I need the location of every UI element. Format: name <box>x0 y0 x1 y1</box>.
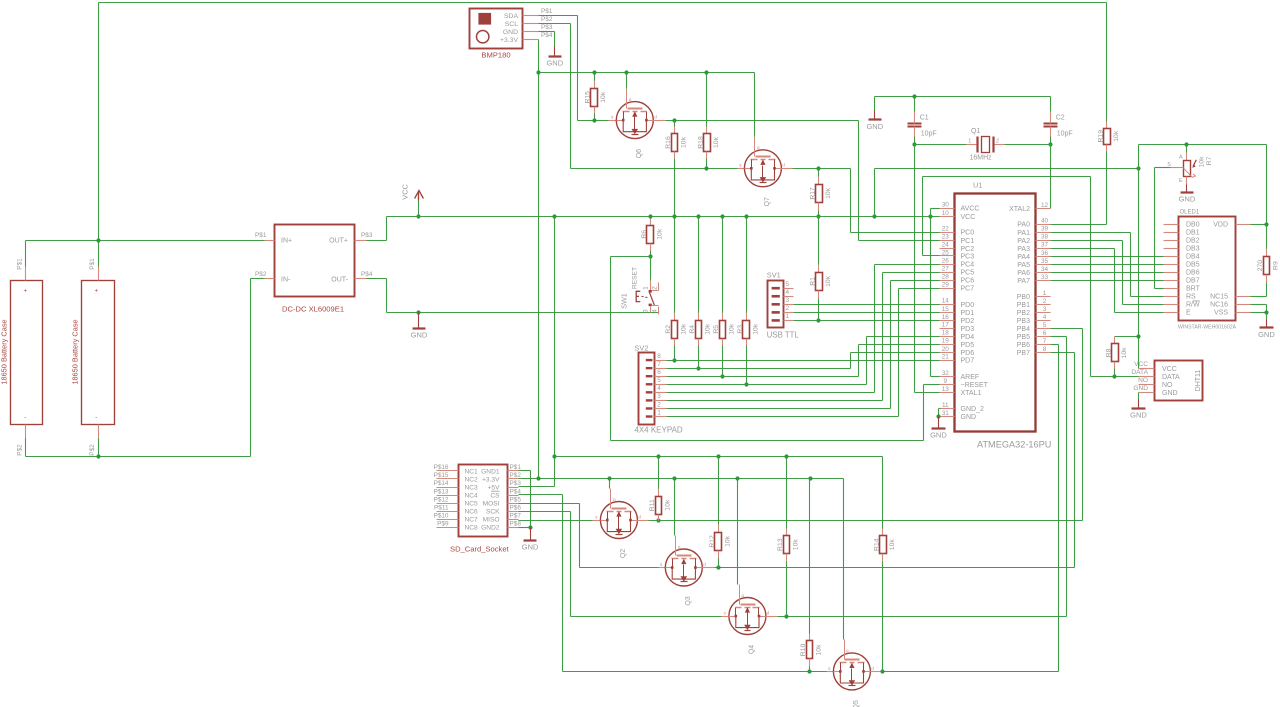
svg-text:2: 2 <box>786 305 790 312</box>
U1 pin 38 PA2 <box>1036 240 1051 242</box>
resistor R11 10k <box>658 457 660 489</box>
svg-text:8: 8 <box>657 353 661 360</box>
svg-text:d: d <box>703 562 706 567</box>
svg-text:18650 Battery Case: 18650 Battery Case <box>71 319 80 384</box>
svg-text:VCC: VCC <box>961 214 976 221</box>
svg-text:PA4: PA4 <box>1017 254 1030 261</box>
junction Q6 gate <box>624 70 628 74</box>
svg-text:P$4: P$4 <box>541 32 553 39</box>
svg-text:A: A <box>1179 155 1183 161</box>
wire SV1 pin2 to PD1 <box>794 312 940 314</box>
svg-text:4: 4 <box>657 385 661 392</box>
svg-text:10k: 10k <box>825 187 832 199</box>
svg-text:10k: 10k <box>1199 156 1206 168</box>
svg-text:d: d <box>767 610 770 615</box>
svg-text:P$2: P$2 <box>17 444 24 456</box>
junction SD GND <box>528 525 532 529</box>
switch SW1 RESET <box>650 281 652 291</box>
svg-text:P$3: P$3 <box>361 232 373 239</box>
svg-text:5: 5 <box>657 377 661 384</box>
svg-text:17: 17 <box>942 322 950 329</box>
junction R17 bottom VCC rail <box>816 214 820 218</box>
svg-text:Q3: Q3 <box>685 596 692 605</box>
svg-text:R1: R1 <box>809 277 816 286</box>
U1 pin 18 PD4 <box>940 336 955 338</box>
svg-text:R12: R12 <box>709 535 716 548</box>
wire PB7 to Q3 drain row <box>1051 352 1075 354</box>
svg-text:Q4: Q4 <box>749 645 756 654</box>
svg-text:RESET: RESET <box>632 267 639 289</box>
wire C2 to XTAL2 <box>1050 145 1052 209</box>
svg-text:11: 11 <box>942 402 949 409</box>
junction VCC rail +5V feed <box>552 214 556 218</box>
SV2 pin 5 <box>655 384 667 386</box>
svg-text:P$2: P$2 <box>255 271 267 278</box>
svg-text:1: 1 <box>968 138 971 144</box>
svg-text:28: 28 <box>942 274 950 281</box>
svg-text:WINSTAR-WEH001602A: WINSTAR-WEH001602A <box>1178 325 1237 331</box>
wire PA3 to OLED E <box>1051 248 1115 250</box>
junction 3.3V rail Q2 gate <box>607 476 611 480</box>
svg-text:NC7: NC7 <box>465 517 479 524</box>
SV1 pin 1 <box>784 320 794 322</box>
SD pin P$1 <box>508 470 519 472</box>
wire keypad row8 to PD7 <box>667 360 940 362</box>
svg-text:PC4: PC4 <box>961 262 975 269</box>
wire battery G2 bottom <box>98 439 100 457</box>
svg-text:NC6: NC6 <box>465 509 479 516</box>
svg-text:10k: 10k <box>729 323 736 335</box>
U1 pin 31 GND <box>940 416 955 418</box>
SD pin P$8 <box>508 527 519 529</box>
OLED pin R/W <box>1164 304 1179 306</box>
wire battery G1 bottom <box>25 439 27 457</box>
svg-text:R3: R3 <box>737 325 744 334</box>
svg-text:SV1: SV1 <box>767 271 781 280</box>
U1 pin 36 PA4 <box>1036 256 1051 258</box>
wire battery G1 top <box>25 241 27 267</box>
svg-text:10: 10 <box>942 210 950 217</box>
svg-text:10k: 10k <box>713 136 720 148</box>
svg-text:10k: 10k <box>656 228 663 240</box>
svg-text:R6: R6 <box>641 230 648 239</box>
junction Q5 drain R14 <box>880 669 884 673</box>
OLED pin VDD <box>1236 224 1251 226</box>
SD pin P$2 <box>508 478 519 480</box>
ground symbol DHT11 <box>1138 400 1140 408</box>
svg-text:10k: 10k <box>793 539 800 551</box>
wire +3.3V gate rail <box>539 72 755 74</box>
junction VCC rail riser <box>872 214 876 218</box>
svg-text:NC1: NC1 <box>465 468 479 475</box>
svg-text:R11: R11 <box>649 499 656 511</box>
svg-text:10pF: 10pF <box>921 131 937 138</box>
U1 pin 16 PD2 <box>940 320 955 322</box>
SD pin P$6 <box>508 511 519 513</box>
U1 pin 10 VCC <box>940 216 955 218</box>
wire Q7 gate <box>754 73 756 137</box>
wire Q2 gate <box>609 479 611 489</box>
svg-text:32: 32 <box>942 370 950 377</box>
junction Q4 drain R13 <box>784 614 788 618</box>
junction VCC rail R3 <box>744 214 748 218</box>
wire OLED VSS to GND <box>1251 312 1267 314</box>
junction Q6 drain R16 <box>672 118 676 122</box>
svg-text:NO: NO <box>1162 382 1173 389</box>
svg-text:21: 21 <box>942 354 950 361</box>
svg-text:DATA: DATA <box>1162 374 1180 381</box>
svg-text:U1: U1 <box>973 181 982 190</box>
wire PA7 to OLED DB7 <box>1051 280 1164 282</box>
svg-text:DB1: DB1 <box>1186 230 1200 237</box>
svg-text:VCC: VCC <box>1162 366 1177 373</box>
battery case G1 (18650) <box>11 281 43 425</box>
svg-text:VSS: VSS <box>1214 310 1228 317</box>
SD pin P$7 <box>508 519 519 521</box>
junction OLED VSS <box>1264 310 1268 314</box>
svg-text:OUT-: OUT- <box>331 277 348 284</box>
junction GND rail <box>416 310 420 314</box>
svg-text:4: 4 <box>651 309 658 313</box>
svg-text:g: g <box>757 145 760 150</box>
SV1 pin 4 <box>784 296 794 298</box>
svg-text:DB5: DB5 <box>1186 262 1200 269</box>
U1 pin 13 XTAL1 <box>940 392 955 394</box>
SD pin P$15 <box>437 478 459 480</box>
junction R3 bottom keypad row5 <box>744 382 748 386</box>
SV2 pin 2 <box>655 408 667 410</box>
svg-text:SW1: SW1 <box>620 293 629 309</box>
wire PB4 to Q2 drain row <box>1051 328 1083 330</box>
SD pin P$10 <box>437 519 459 521</box>
svg-text:25: 25 <box>942 249 950 256</box>
junction Q7 drain R17 <box>816 166 820 170</box>
wire Q2 drain <box>638 520 649 522</box>
svg-text:R2: R2 <box>665 325 672 334</box>
wire RESET to switch pin1 <box>650 257 652 281</box>
U1 pin 34 PA6 <box>1036 272 1051 274</box>
wire VCC rail <box>387 216 940 218</box>
wire battery G2 top <box>98 241 100 267</box>
wire battery minus rail <box>26 456 251 458</box>
svg-text:15: 15 <box>942 306 950 313</box>
OLED pin E <box>1164 312 1179 314</box>
junction battery plus <box>96 238 100 242</box>
wire +3.3V rail bottom <box>519 478 844 480</box>
SV2 pin 4 <box>655 392 667 394</box>
U1 pin 3 PB2 <box>1036 312 1051 314</box>
svg-text:DC-DC XL6009E1: DC-DC XL6009E1 <box>282 305 344 314</box>
resistor R2 10K keypad row8 pullup <box>674 217 676 313</box>
svg-text:R18: R18 <box>697 136 704 149</box>
svg-text:P$13: P$13 <box>434 488 449 495</box>
svg-text:1: 1 <box>643 286 650 290</box>
svg-text:16MHz: 16MHz <box>970 155 993 162</box>
wire SDA net down <box>539 15 578 17</box>
svg-text:AREF: AREF <box>961 374 980 381</box>
svg-text:-: - <box>24 415 26 421</box>
OLED pin DB7 <box>1164 280 1179 282</box>
transistor Q4 MOSFET level shifter SCK <box>722 616 729 618</box>
svg-text:PB6: PB6 <box>1017 342 1030 349</box>
svg-text:10k: 10k <box>1113 130 1120 142</box>
ground symbol GND rail <box>418 313 420 321</box>
svg-text:PC1: PC1 <box>961 238 975 245</box>
wire Q5 drain <box>871 671 883 673</box>
OLED pin NC16 <box>1236 304 1251 306</box>
DHT11 sensor <box>1155 361 1203 401</box>
OLED pin DB1 <box>1164 232 1179 234</box>
junction R8 top VCC <box>1136 334 1140 338</box>
wire +5V rail A <box>555 456 883 458</box>
svg-text:P$4: P$4 <box>361 271 373 278</box>
junction +5V rail A tap <box>552 454 556 458</box>
svg-text:R16: R16 <box>665 136 672 149</box>
svg-text:10k: 10k <box>600 91 607 103</box>
svg-text:PA6: PA6 <box>1017 270 1030 277</box>
wire keypad row4 to PC4 <box>667 392 875 394</box>
U1 pin 27 PC5 <box>940 272 955 274</box>
svg-text:C1: C1 <box>920 114 929 121</box>
wire top border from battery junction <box>98 3 100 241</box>
BMP180 pin P$2 SCL <box>523 23 539 25</box>
svg-text:22: 22 <box>942 226 950 233</box>
svg-text:g: g <box>742 593 745 598</box>
DC-DC pin P$2 (IN-) <box>265 278 275 280</box>
svg-text:26: 26 <box>942 257 950 264</box>
svg-text:36: 36 <box>1041 250 1049 257</box>
transistor Q5 MOSFET level shifter CS <box>827 671 834 673</box>
svg-text:3: 3 <box>786 297 790 304</box>
SD pin P$5 <box>508 503 519 505</box>
resistor R3 10K keypad row5 pullup <box>746 217 748 313</box>
VCC supply symbol <box>415 191 424 199</box>
U1 pin 23 PC1 <box>940 240 955 242</box>
svg-text:USB TTL: USB TTL <box>767 330 800 339</box>
svg-text:g: g <box>629 97 632 102</box>
U1 pin 14 PD0 <box>940 304 955 306</box>
junction VCC rail R4 <box>696 214 700 218</box>
resistor R6 10K RESET pullup <box>650 219 652 226</box>
svg-text:PA7: PA7 <box>1017 278 1030 285</box>
wire +3.3V net down from BMP <box>538 39 540 41</box>
svg-text:5: 5 <box>786 281 790 288</box>
svg-text:16: 16 <box>942 314 950 321</box>
wire PB5 to Q4 drain row <box>1051 336 1067 338</box>
svg-text:PB5: PB5 <box>1017 334 1030 341</box>
U1 pin 33 PA7 <box>1036 280 1051 282</box>
junction 3.3V rail R10 <box>808 476 812 480</box>
svg-text:SCL: SCL <box>505 21 518 28</box>
svg-text:P$12: P$12 <box>434 496 449 503</box>
svg-text:PA3: PA3 <box>1017 246 1030 253</box>
svg-text:VCC: VCC <box>401 184 410 200</box>
junction +3.3V gate rail <box>536 70 540 74</box>
svg-text:6: 6 <box>657 369 661 376</box>
SV2 pin 3 <box>655 400 667 402</box>
svg-text:PC5: PC5 <box>961 270 975 277</box>
junction VCC rail R6 <box>648 214 652 218</box>
svg-text:PA5: PA5 <box>1017 262 1030 269</box>
svg-text:Q6: Q6 <box>636 149 643 158</box>
OLED pin VSS <box>1236 312 1251 314</box>
svg-text:P$7: P$7 <box>510 512 522 519</box>
resistor R19 10k VBAT sense <box>1106 121 1108 122</box>
wire Q3 gate <box>674 479 676 536</box>
svg-text:PB0: PB0 <box>1017 294 1030 301</box>
wire U1 GND pins to ground <box>938 409 940 417</box>
DC-DC pin P$4 (OUT-) <box>355 278 367 280</box>
svg-text:P$14: P$14 <box>434 480 449 487</box>
wire PA5 to OLED DB5 <box>1051 264 1164 266</box>
svg-text:IN+: IN+ <box>281 238 292 245</box>
U1 pin 39 PA1 <box>1036 232 1051 234</box>
svg-text:3: 3 <box>657 393 661 400</box>
svg-text:PD2: PD2 <box>961 318 975 325</box>
ground symbol BMP180 <box>554 47 556 56</box>
svg-text:VDD: VDD <box>1213 222 1228 229</box>
svg-text:GND: GND <box>411 331 428 340</box>
svg-text:VCC: VCC <box>1134 361 1148 368</box>
SV1 pin 3 <box>784 304 794 306</box>
junction R1 bottom <box>816 318 820 322</box>
svg-text:PB7: PB7 <box>1017 350 1030 357</box>
ground symbol OLED <box>1266 313 1268 320</box>
svg-text:DB7: DB7 <box>1186 278 1200 285</box>
svg-text:E: E <box>1186 310 1191 317</box>
svg-text:3: 3 <box>1043 306 1047 313</box>
wire PA2 to OLED R/W <box>1051 240 1123 242</box>
resistor R18 10K SCL pullup 3.3V <box>706 73 708 127</box>
svg-text:NC15: NC15 <box>1210 294 1228 301</box>
U1 pin 1 PB0 <box>1036 296 1051 298</box>
svg-text:5: 5 <box>1043 322 1047 329</box>
wire keypad row6 to PD5 <box>667 376 859 378</box>
svg-text:R14: R14 <box>873 538 880 551</box>
wire SD SCK to Q4 source <box>519 511 571 513</box>
U1 pin 37 PA3 <box>1036 248 1051 250</box>
wire OLED NC15 to R9 <box>1251 296 1267 298</box>
U1 pin 2 PB1 <box>1036 304 1051 306</box>
U1 pin 32 AREF <box>940 376 955 378</box>
wire keypad row3 to PC5 <box>667 400 883 402</box>
svg-text:GND: GND <box>1162 390 1178 397</box>
transistor Q2 MOSFET level shifter MISO <box>593 520 601 522</box>
svg-text:SV2: SV2 <box>634 343 648 352</box>
svg-text:P$10: P$10 <box>434 512 449 519</box>
SV2 pin 6 <box>655 376 667 378</box>
OLED pin DB2 <box>1164 240 1179 242</box>
svg-text:BRT: BRT <box>1186 286 1201 293</box>
svg-text:SDA: SDA <box>504 13 518 20</box>
wire battery plus rail to DC-DC IN+ <box>26 240 265 242</box>
svg-text:GND: GND <box>522 543 539 552</box>
svg-text:MOSI: MOSI <box>483 501 500 508</box>
U1 pin 26 PC4 <box>940 264 955 266</box>
svg-text:DB0: DB0 <box>1186 222 1200 229</box>
svg-text:PD1: PD1 <box>961 310 975 317</box>
svg-text:9: 9 <box>944 378 948 385</box>
svg-text:PC3: PC3 <box>961 254 975 261</box>
svg-text:40: 40 <box>1041 218 1049 225</box>
svg-text:35: 35 <box>1041 258 1049 265</box>
svg-text:1: 1 <box>786 313 790 320</box>
SV1 pin 2 <box>784 312 794 314</box>
svg-text:CS: CS <box>490 492 500 499</box>
svg-text:E: E <box>1179 178 1183 184</box>
svg-text:10k: 10k <box>705 323 712 335</box>
junction battery minus <box>96 454 100 458</box>
U1 pin 40 PA0 <box>1036 224 1051 226</box>
svg-text:NC3: NC3 <box>465 484 479 491</box>
U1 pin 20 PD6 <box>940 352 955 354</box>
svg-text:XTAL1: XTAL1 <box>961 390 982 397</box>
svg-text:P$11: P$11 <box>434 504 449 511</box>
crystal Q1 16MHz <box>915 144 967 146</box>
junction U1 GND <box>936 414 940 418</box>
BMP180 sensor module <box>470 9 523 49</box>
svg-text:OLED1: OLED1 <box>1180 210 1200 216</box>
svg-text:P$15: P$15 <box>434 472 449 479</box>
battery G2 pin P$1 <box>98 267 100 281</box>
svg-text:10k: 10k <box>665 499 672 511</box>
junction R4 bottom keypad row7 <box>696 366 700 370</box>
U1 pin 5 PB4 <box>1036 328 1051 330</box>
svg-text:P$1: P$1 <box>255 232 267 239</box>
OLED pin BRT <box>1164 288 1179 290</box>
wire crystal top rail <box>875 96 1051 98</box>
U1 pin 35 PA5 <box>1036 264 1051 266</box>
svg-text:18: 18 <box>942 330 950 337</box>
svg-text:R19: R19 <box>1098 130 1105 143</box>
svg-text:PC2: PC2 <box>961 246 975 253</box>
transistor Q7 MOSFET level shifter SCL <box>738 168 745 170</box>
wire C1 to XTAL1 <box>914 145 916 393</box>
resistor R13 10k <box>786 457 788 529</box>
wire SCL net down <box>539 23 571 25</box>
svg-text:DB4: DB4 <box>1186 254 1200 261</box>
svg-text:OUT+: OUT+ <box>329 238 348 245</box>
svg-text:34: 34 <box>1041 266 1049 273</box>
junction R18 top <box>704 70 708 74</box>
DC-DC pin P$1 (IN+) <box>265 240 275 242</box>
U1 pin 4 PB3 <box>1036 320 1051 322</box>
wire GND rail <box>387 312 659 314</box>
svg-text:Q7: Q7 <box>764 197 771 206</box>
SD pin P$14 <box>437 487 459 489</box>
svg-text:+3.3V: +3.3V <box>482 476 500 483</box>
U1 pin 11 GND_2 <box>940 408 955 410</box>
BMP180 pin P$1 SDA <box>523 15 539 17</box>
junction R2 bottom keypad row8 <box>672 358 676 362</box>
svg-text:33: 33 <box>1041 274 1049 281</box>
junction pot R7 top <box>1184 142 1188 146</box>
svg-text:2: 2 <box>657 401 661 408</box>
wire VCC vertical to DHT11 <box>1138 145 1140 337</box>
U1 pin 17 PD3 <box>940 328 955 330</box>
svg-text:13: 13 <box>942 386 950 393</box>
svg-text:g: g <box>613 497 616 502</box>
wire Q5 gate <box>843 479 845 640</box>
svg-text:PC7: PC7 <box>961 286 975 293</box>
svg-text:d: d <box>638 514 641 519</box>
U1 pin 8 PB7 <box>1036 352 1051 354</box>
svg-text:DB6: DB6 <box>1186 270 1200 277</box>
svg-text:NC8: NC8 <box>465 525 479 532</box>
svg-text:+: + <box>95 289 99 295</box>
SD pin P$9 <box>437 527 459 529</box>
SV2 pin 7 <box>655 368 667 370</box>
